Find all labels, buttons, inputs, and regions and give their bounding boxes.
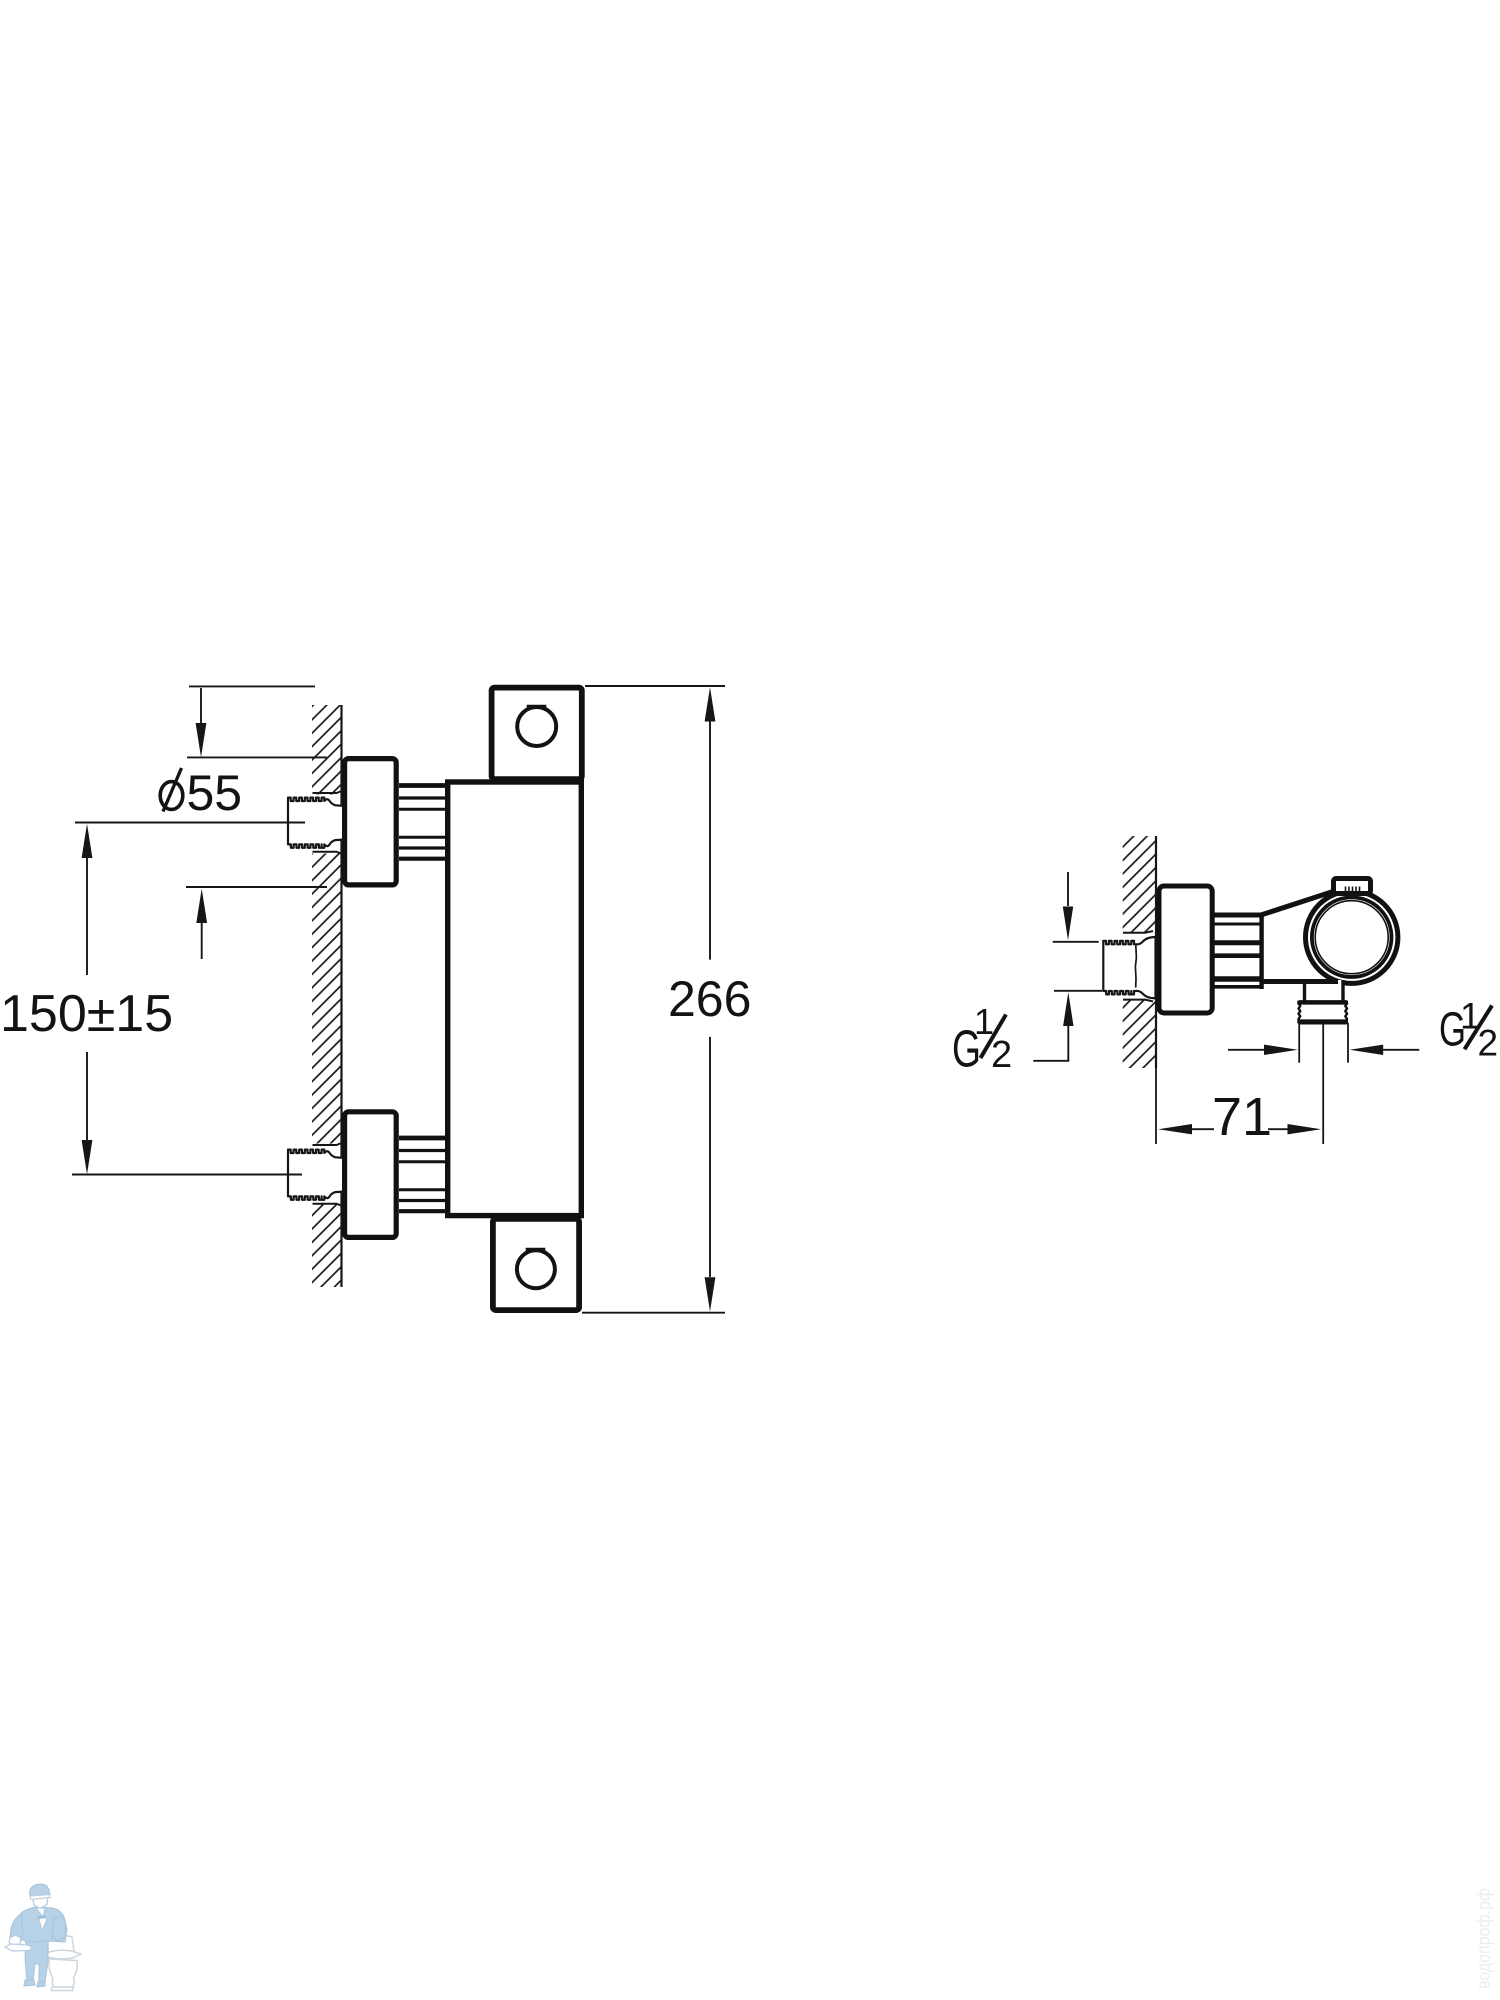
- bottom flange screw slot notch: [527, 1249, 544, 1254]
- bottom mounting flange (front view): [493, 1219, 579, 1310]
- plumber watermark figure (bottom left): [5, 1884, 81, 1990]
- cap: [30, 1884, 50, 1897]
- left upper arm: [10, 1914, 23, 1942]
- escutcheon (side view): [1159, 886, 1212, 1013]
- nut edge extension line right: [1347, 1023, 1349, 1063]
- plumber boots: [24, 1980, 35, 1986]
- wall hole edge, top inlet lower: [313, 852, 342, 854]
- outlet centre extension line: [1322, 1023, 1324, 1144]
- wall surface line (side view): [1155, 836, 1157, 1068]
- dimension text ø55: [160, 782, 183, 810]
- top mounting flange (front view): [492, 688, 582, 780]
- G1/2 top extension line (side inlet): [1053, 941, 1099, 943]
- extension line, bottom inlet centre: [72, 1174, 302, 1176]
- toilet bowl: [49, 1959, 78, 1988]
- side nipple thread-neck parting line: [1135, 946, 1136, 988]
- wall extension line for 71: [1155, 1068, 1157, 1144]
- wall hole edge, top inlet upper: [313, 791, 342, 793]
- plumber legs: [25, 1941, 48, 1982]
- svg-text:71: 71: [1212, 1087, 1272, 1147]
- valve body (front view): [448, 782, 582, 1216]
- svg-text:266: 266: [668, 971, 751, 1027]
- wrench in hand: [5, 1944, 32, 1951]
- wall hatching upper band (side view): [1123, 836, 1156, 933]
- wall surface line (front view): [340, 705, 342, 1287]
- outlet coupling nut G1/2: [1297, 1001, 1348, 1023]
- arrow up to inlet thread bottom with leader: [1033, 992, 1073, 1061]
- body cone bottom line (side view): [1262, 979, 1338, 984]
- dimension line 266 with arrows: [705, 687, 716, 1311]
- bottom inlet nipple G1/2 (front view): [288, 1150, 345, 1200]
- thermostat knob inner ring: [1312, 897, 1392, 977]
- extension line, flange top leftward: [189, 685, 315, 687]
- wall hole edge, bottom inlet lower: [313, 1204, 342, 1206]
- thermostat knob outer ring (side view): [1306, 891, 1398, 983]
- 71 dimension line with outward arrows: [1158, 1124, 1321, 1134]
- face: [32, 1894, 48, 1909]
- shower outlet stub below knob: [1305, 980, 1344, 1003]
- wall hatching lower band (side view): [1123, 1000, 1156, 1068]
- ribbed connector (side view): [1215, 915, 1262, 987]
- plumber torso jacket: [18, 1907, 67, 1942]
- top ribbed connector (front view): [399, 786, 448, 859]
- left cuff and hand: [9, 1935, 21, 1945]
- svg-text:2: 2: [991, 1034, 1012, 1076]
- toilet tank: [48, 1936, 74, 1952]
- wall hole edge lower (side view): [1123, 1000, 1153, 1002]
- wall hatching lower band (front view): [312, 1205, 342, 1288]
- top inlet nipple G1/2 (front view): [288, 798, 345, 848]
- G1/2 dimension arrows at outlet nut: [1228, 1045, 1419, 1055]
- dimension arrow up to escutcheon bottom: [196, 889, 207, 959]
- svg-text:2: 2: [1478, 1022, 1499, 1063]
- left G1/2 label: [952, 1001, 1012, 1079]
- bottom wall escutcheon (front view): [345, 1112, 397, 1238]
- connector right edge (side view): [1259, 913, 1263, 990]
- inlet nipple G1/2 (side view): [1103, 937, 1155, 999]
- top flange screw hole: [517, 707, 556, 746]
- toilet seat rim: [46, 1950, 81, 1959]
- bottom flange screw hole: [517, 1250, 555, 1288]
- dimension arrow up to inlet centre (150±15 top): [82, 824, 93, 975]
- dimension line 150±15 lower segment with down arrow: [82, 1052, 93, 1174]
- shirt V + tie: [36, 1908, 47, 1931]
- arrow down to inlet thread top: [1063, 872, 1073, 940]
- svg-text:водопроф.рф: водопроф.рф: [1474, 1888, 1495, 1989]
- extension line, top inlet centre: [75, 822, 305, 824]
- right arm to tank: [52, 1916, 66, 1941]
- wall hatching middle band (front view): [312, 854, 342, 1144]
- nut edge extension line left: [1298, 1023, 1300, 1063]
- dimension arrow down to escutcheon top: [196, 688, 207, 757]
- wall hatching upper band (front view): [312, 705, 342, 795]
- extension line, 266 bottom: [582, 1312, 725, 1314]
- extension line, escutcheon top: [187, 756, 327, 758]
- extension line, 266 top: [585, 685, 725, 687]
- extension line, escutcheon bottom: [186, 886, 327, 888]
- knob button knurling ticks: [1346, 887, 1360, 897]
- G1/2 bottom extension line (side inlet): [1054, 990, 1102, 992]
- bottom ribbed connector (front view): [399, 1138, 448, 1211]
- knob top button: [1334, 879, 1371, 894]
- svg-text:150±15: 150±15: [0, 985, 173, 1043]
- wall hole edge upper (side view): [1123, 931, 1153, 933]
- wall hole edge, bottom inlet upper: [313, 1143, 342, 1145]
- right G1/2 label: [1439, 996, 1498, 1064]
- thermostat knob face circle: [1315, 901, 1388, 974]
- top flange screw slot notch: [528, 706, 545, 711]
- top wall escutcheon (front view): [345, 759, 397, 885]
- svg-text:55: 55: [187, 765, 243, 821]
- body cone top line (side view): [1262, 892, 1333, 915]
